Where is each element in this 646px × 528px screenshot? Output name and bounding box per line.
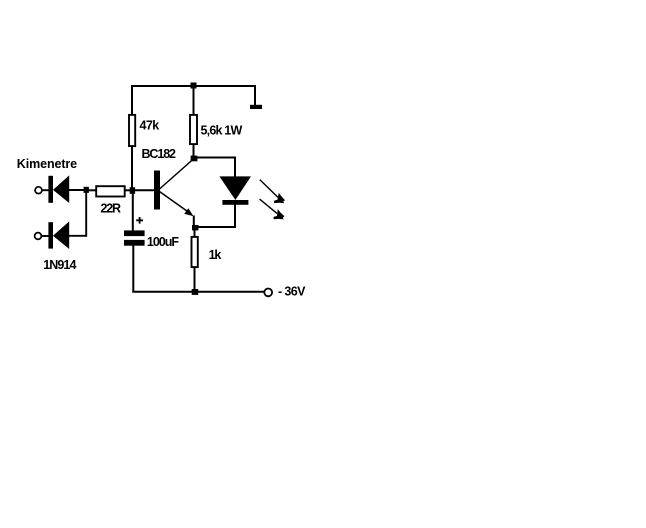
transistor Q1 collector line — [160, 159, 195, 190]
wire: node A down to capacitor C1 — [132, 192, 134, 231]
light arrow 1 head — [274, 193, 285, 203]
wire: D1 terminal to cathode bar — [42, 189, 49, 191]
diode D1 triangle — [53, 175, 69, 203]
wire: D1 anode to diode junction — [69, 189, 87, 191]
wire: bottom rail horizontal — [132, 291, 264, 293]
svg-text:100uF: 100uF — [147, 235, 179, 249]
wire: drop from top rail to ground — [254, 85, 256, 105]
wire: node C to R3 1k — [194, 229, 196, 237]
junction: top rail node — [191, 83, 197, 89]
wire: R2 bottom lead to node B (collector) — [193, 144, 195, 158]
transistor Q1 emitter arrowhead — [184, 208, 193, 216]
diode D2 cathode bar — [48, 222, 53, 248]
resistor R4 22R body — [96, 186, 125, 196]
terminal: diode D2 open circle — [35, 233, 42, 240]
resistor R3 1k body — [192, 237, 198, 267]
light arrow 2 head — [274, 209, 285, 219]
node D junction dot (bottom rail node) — [192, 289, 199, 295]
svg-text:Kimenetre: Kimenetre — [17, 157, 77, 171]
wire: capacitor C1 down to bottom rail — [132, 246, 134, 293]
wire: D2 anode horizontal — [69, 235, 87, 237]
capacitor C1 bottom plate — [124, 240, 145, 246]
capacitor C1 top plate — [124, 230, 145, 236]
terminal: diode D1 open circle — [35, 187, 42, 194]
wire: LED bottom horizontal to node C — [194, 226, 236, 228]
wire: node A to transistor base — [134, 189, 155, 191]
wire: top rail to R1 47k — [131, 85, 133, 115]
wire: LED cathode vertical drop — [234, 205, 236, 229]
terminal: -36V open circle — [264, 289, 272, 297]
node A junction dot (base node) — [130, 187, 135, 194]
svg-text:22R: 22R — [101, 202, 122, 216]
wire: R4 22R to node A — [125, 189, 131, 191]
wire: node B to LED anode corner — [194, 157, 236, 159]
svg-text:- 36V: - 36V — [278, 284, 306, 298]
wire: diode junction to R4 22R — [88, 189, 96, 191]
node C junction dot (emitter node) — [192, 225, 198, 230]
wire: R1 47k bottom lead down to node A — [131, 147, 133, 191]
ground — [250, 105, 262, 109]
resistor R1 47k body — [129, 115, 135, 146]
svg-text:BC182: BC182 — [142, 147, 177, 161]
junction dot: diode node — [84, 187, 89, 193]
diode D2 triangle — [53, 221, 69, 249]
capacitor C1 plus sign — [136, 217, 143, 224]
wire: emitter arrowhead to node C — [193, 216, 195, 228]
resistor R2 5,6k 1W body — [190, 115, 197, 144]
svg-text:5,6k 1W: 5,6k 1W — [201, 124, 243, 138]
LED D3 cathode bar — [222, 200, 248, 205]
svg-text:1N914: 1N914 — [43, 258, 76, 272]
node B junction dot (collector node) — [191, 156, 198, 162]
svg-text:1k: 1k — [209, 248, 222, 262]
wire: R3 1k bottom lead to node D — [194, 267, 196, 291]
svg-text:47k: 47k — [140, 118, 160, 132]
wire: D2 up to diode junction — [85, 189, 87, 237]
wire: LED anode vertical drop — [234, 157, 236, 178]
transistor Q1 emitter line — [160, 192, 190, 213]
diode D1 cathode bar — [48, 176, 53, 203]
transistor Q1 BC182 base bar — [154, 171, 160, 210]
light arrow 2 shaft — [260, 199, 277, 213]
wire: top rail to R2 5,6k — [193, 85, 195, 115]
LED D3 anode triangle — [219, 176, 251, 200]
wire: D2 terminal to cathode bar — [41, 235, 49, 237]
light arrow 1 shaft — [260, 180, 278, 198]
wire: top supply rail horizontal — [131, 85, 256, 87]
